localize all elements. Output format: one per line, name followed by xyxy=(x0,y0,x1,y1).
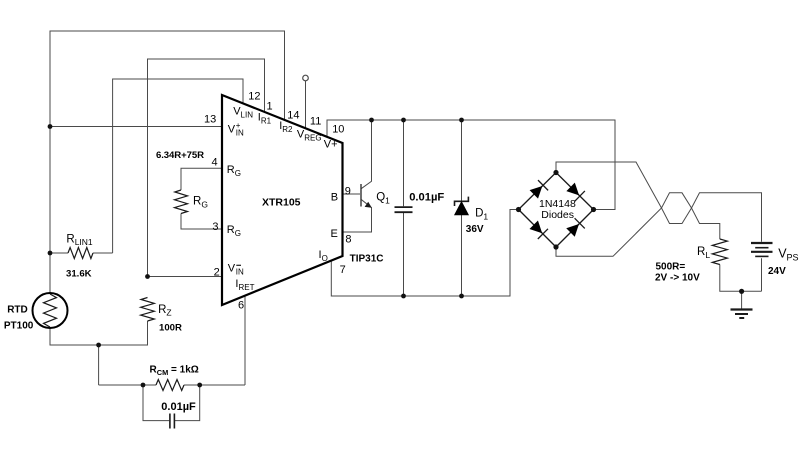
diode bridge edges xyxy=(519,173,594,248)
wire capacitor C1 bottom stem xyxy=(403,213,405,296)
RTD sensor element zigzag xyxy=(44,294,57,327)
svg-text:100R: 100R xyxy=(159,323,182,334)
svg-text:14: 14 xyxy=(287,110,299,122)
wire pin 10 V+ top rail xyxy=(327,120,615,210)
wire twisted pair conductor 2 (bridge bottom to RL) xyxy=(556,193,720,256)
diode D3 top-right xyxy=(566,183,585,202)
wire pin 4 RG xyxy=(181,168,222,190)
wire RCM row left xyxy=(99,384,156,386)
wire capacitor C2 right branch xyxy=(175,385,200,421)
wire RTD bottom to RZ bottom xyxy=(50,321,148,345)
svg-text:36V: 36V xyxy=(466,224,484,235)
svg-text:6.34R+75R: 6.34R+75R xyxy=(156,150,204,161)
svg-text:V+: V+ xyxy=(324,138,338,150)
ground symbol xyxy=(731,310,753,319)
svg-text:PT100: PT100 xyxy=(4,321,34,332)
wire capacitor C2 left branch xyxy=(143,385,169,421)
diode D5 bottom-right xyxy=(566,218,585,237)
wire ground stem xyxy=(741,291,743,309)
svg-text:3: 3 xyxy=(212,221,218,233)
capacitor C1 0.01uF plates xyxy=(395,207,413,212)
wire pin 7 IO bottom rail to bridge left node xyxy=(331,210,518,297)
transistor Q1 emitter arrow xyxy=(365,202,372,208)
svg-text:8: 8 xyxy=(345,234,351,246)
resistor RG external xyxy=(175,190,188,214)
svg-text:6: 6 xyxy=(238,300,244,312)
svg-text:2: 2 xyxy=(214,267,220,279)
svg-text:V: V xyxy=(228,124,236,136)
zener diode D1 xyxy=(455,197,469,215)
wire RCM row right xyxy=(184,384,245,386)
wire pin 2 VIN- horizontal xyxy=(148,276,223,278)
wire net pin12 VLIN to RLIN1 right (third top loop) xyxy=(113,79,243,253)
svg-text:500R=: 500R= xyxy=(656,262,686,273)
transistor Q1 base bar xyxy=(360,184,362,207)
svg-text:24V: 24V xyxy=(768,266,786,277)
svg-text:IN: IN xyxy=(236,129,244,138)
svg-text:31.6K: 31.6K xyxy=(66,269,92,280)
wire node A down to RCM row xyxy=(98,345,100,385)
resistor RLIN1 xyxy=(68,248,93,259)
diode D2 top-left xyxy=(530,180,549,199)
svg-text:1: 1 xyxy=(267,101,273,113)
capacitor C2 0.01uF plates xyxy=(170,414,175,429)
svg-text:2V -> 10V: 2V -> 10V xyxy=(655,273,700,284)
wire Q1 emitter to pin 8 xyxy=(343,199,372,232)
svg-text:7: 7 xyxy=(340,264,346,276)
wire pin 13 VIN+ horizontal xyxy=(50,126,222,128)
svg-text:10: 10 xyxy=(332,124,344,136)
svg-text:E: E xyxy=(331,228,338,240)
wire capacitor C1 top stem xyxy=(403,120,405,206)
resistor RL xyxy=(712,239,727,265)
diode D4 bottom-left xyxy=(529,220,548,239)
svg-text:0.01µF: 0.01µF xyxy=(161,401,196,413)
svg-text:IN: IN xyxy=(236,268,244,277)
wire RL bottom to ground node xyxy=(720,265,762,292)
svg-text:12: 12 xyxy=(248,91,260,103)
svg-text:Diodes: Diodes xyxy=(541,209,574,221)
wire Q1 collector xyxy=(361,120,372,189)
wire RLIN1 right lead xyxy=(93,252,113,254)
svg-text:TIP31C: TIP31C xyxy=(350,254,384,265)
wire RLIN1 left lead xyxy=(50,252,68,254)
wire zener D1 bottom stem xyxy=(461,215,463,296)
svg-text:B: B xyxy=(331,192,338,204)
wire Q1 base from pin 9 xyxy=(343,193,361,195)
svg-text:1N4148: 1N4148 xyxy=(539,198,576,210)
svg-text:V: V xyxy=(228,263,236,275)
wire VPS bottom stem xyxy=(761,258,763,291)
svg-text:9: 9 xyxy=(345,186,351,198)
svg-text:0.01µF: 0.01µF xyxy=(409,191,444,203)
wire net pin14 IR2 to pin13/RTD top (outer top loop) xyxy=(50,31,285,293)
wire zener D1 top stem xyxy=(461,120,463,201)
wire pin 11 VREG stub xyxy=(305,81,307,129)
op-amp U1 XTR105 body xyxy=(222,95,343,305)
wire twisted pair conductor 1 (bridge top to VPS) xyxy=(556,162,762,242)
svg-text:13: 13 xyxy=(204,114,216,126)
resistor RCM xyxy=(156,380,184,391)
battery VPS plates xyxy=(751,243,773,256)
resistor RZ xyxy=(141,298,155,322)
svg-text:4: 4 xyxy=(212,157,218,169)
pin 11 test point circle xyxy=(303,75,309,81)
TEXTS xyxy=(204,91,576,312)
svg-text:11: 11 xyxy=(310,116,321,128)
svg-text:RTD: RTD xyxy=(7,305,28,316)
svg-text:XTR105: XTR105 xyxy=(262,197,301,209)
RTD sensor PT100 circle xyxy=(33,293,68,328)
wire pin 6 IRET xyxy=(244,295,246,385)
wire net pin1 IR1 to VIN- node (second top loop) xyxy=(148,59,265,277)
wire pin 3 RG xyxy=(181,214,222,230)
